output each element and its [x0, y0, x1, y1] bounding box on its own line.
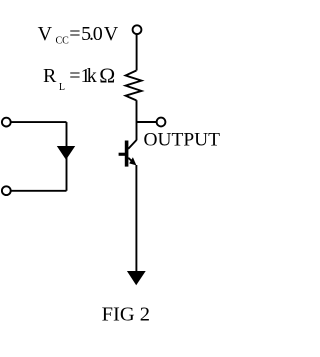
input terminal top [2, 118, 11, 127]
svg-text:1k: 1k [81, 65, 97, 87]
svg-text:CC: CC [56, 36, 70, 47]
ground arrow [127, 271, 146, 285]
svg-text:R: R [43, 65, 57, 87]
wire [11, 121, 67, 123]
svg-text:OUTPUT: OUTPUT [144, 129, 221, 150]
resistor RL [126, 71, 142, 101]
wire [137, 121, 157, 123]
label VCC = 5.0V [38, 23, 119, 47]
svg-text:=: = [69, 23, 80, 45]
svg-text:V: V [38, 23, 53, 45]
input terminal bottom [2, 186, 11, 195]
wire [11, 190, 67, 192]
wire [66, 122, 68, 191]
wire [136, 100, 138, 140]
svg-text:Ω: Ω [99, 64, 115, 88]
label RL = 1kΩ [43, 64, 115, 93]
svg-text:=: = [69, 65, 80, 87]
node OUTPUT terminal [157, 118, 166, 127]
node VCC terminal [133, 25, 142, 34]
wire [135, 165, 137, 271]
svg-text:FIG 2: FIG 2 [102, 304, 150, 326]
diode arrow [57, 146, 75, 160]
svg-text:5.0V: 5.0V [81, 23, 119, 45]
wire [136, 34, 138, 70]
transistor Q1 [119, 140, 137, 167]
svg-text:L: L [59, 82, 65, 93]
